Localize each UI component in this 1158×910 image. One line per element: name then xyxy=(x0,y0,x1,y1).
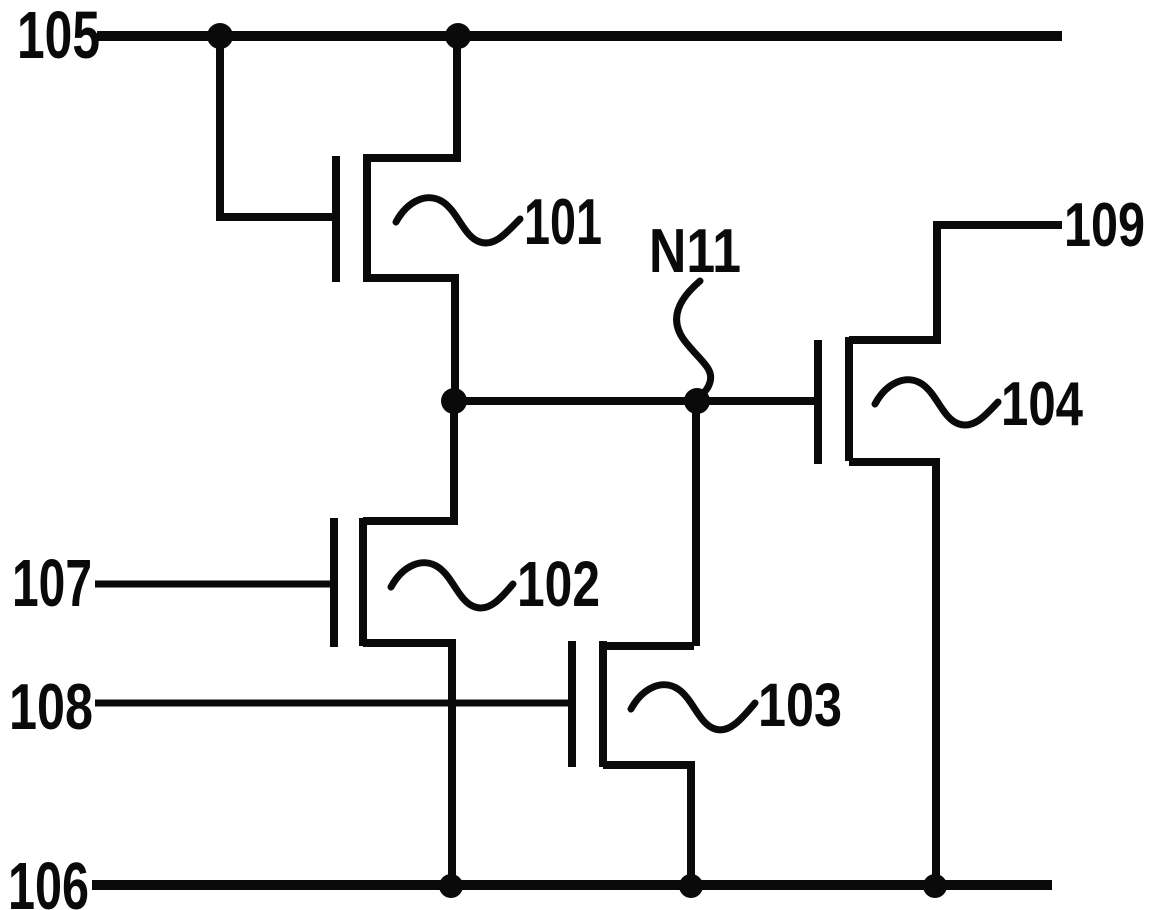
svg-text:103: 103 xyxy=(758,671,842,739)
transistor 101 source lead down to node N11 line xyxy=(367,278,455,401)
leader squiggle for 104 xyxy=(875,380,998,425)
transistor 104 gate bar xyxy=(814,340,822,464)
svg-text:107: 107 xyxy=(12,546,92,621)
transistor 103 drain lead up to node N11 wire xyxy=(603,642,694,650)
transistor 102 drain lead up to node N11 junction xyxy=(363,401,454,521)
wire: gate lead 107 to transistor 102 xyxy=(95,581,330,588)
transistor 103 gate bar xyxy=(568,641,576,767)
svg-text:104: 104 xyxy=(1001,370,1083,439)
wire: node N11 down to drain of 103 xyxy=(692,401,700,646)
svg-text:105: 105 xyxy=(17,0,100,73)
wire: node N11 horizontal from 101/102 junction to gate of 104 xyxy=(454,397,818,405)
wire: gate lead 108 to transistor 103 xyxy=(95,700,568,707)
transistor 104 channel bar xyxy=(845,337,853,461)
wire: top supply rail 105 xyxy=(97,31,1062,41)
svg-text:109: 109 xyxy=(1064,191,1145,260)
transistor 102 gate bar xyxy=(330,518,338,647)
junction dot: node N11 xyxy=(684,388,710,414)
leader squiggle from N11 label to node dot xyxy=(677,281,711,399)
transistor 103 source lead down to rail 106 xyxy=(603,765,691,886)
junction dot: rail 106 / source of 104 xyxy=(923,874,947,898)
junction dot: drain chain of 101/102 on node N11 xyxy=(441,388,467,414)
leader squiggle for 102 xyxy=(391,563,513,608)
transistor 101 gate bar xyxy=(332,156,340,282)
leader squiggle for 101 xyxy=(396,198,520,243)
wire: gate branch from rail 105 down to gate of 101 xyxy=(220,36,332,217)
svg-text:102: 102 xyxy=(517,548,600,620)
transistor 102 source lead down to rail 106 xyxy=(363,643,452,886)
junction dot: rail 106 / source of 103 xyxy=(679,874,703,898)
wire: bottom rail 106 xyxy=(92,880,1052,890)
transistor 103 channel bar xyxy=(599,641,607,767)
svg-text:108: 108 xyxy=(9,670,93,743)
svg-text:N11: N11 xyxy=(649,217,741,286)
transistor 102 channel bar xyxy=(359,518,367,646)
leader squiggle for 103 xyxy=(631,685,755,730)
transistor 104 drain lead up to output 109 xyxy=(849,225,1062,340)
transistor 104 source lead down to rail 106 xyxy=(849,462,936,886)
svg-text:106: 106 xyxy=(8,849,89,910)
junction dot: rail 105 / gate branch of 101 xyxy=(207,23,233,49)
junction dot: rail 105 / drain of 101 xyxy=(445,23,471,49)
transistor 101 drain lead up to rail 105 xyxy=(367,36,457,158)
svg-text:101: 101 xyxy=(524,185,602,258)
transistor 101 channel bar xyxy=(363,154,371,282)
junction dot: rail 106 / source of 102 xyxy=(439,874,463,898)
